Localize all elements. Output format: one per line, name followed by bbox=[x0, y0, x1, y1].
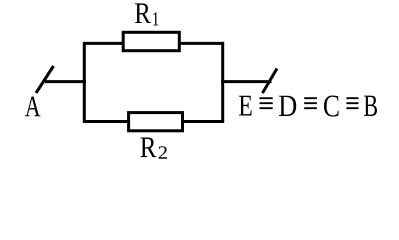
label R1 subscript 1 bbox=[153, 12, 158, 25]
identity sign between E and D bbox=[260, 98, 273, 108]
wire left terminal lead bbox=[45, 80, 86, 83]
resistor R1 bbox=[123, 32, 179, 50]
node label D bbox=[279, 96, 296, 116]
label R2 subscript 2 bbox=[159, 146, 167, 158]
node label C bbox=[324, 95, 339, 116]
wire right vertical of loop bbox=[221, 42, 224, 123]
wire top rail of parallel loop bbox=[83, 42, 224, 45]
terminal slash at A bbox=[36, 66, 54, 93]
identity sign between C and B bbox=[346, 98, 358, 108]
wire left vertical of loop bbox=[83, 42, 86, 123]
identity sign between D and C bbox=[304, 98, 317, 108]
node label B bbox=[364, 96, 377, 116]
wire bottom rail of parallel loop bbox=[83, 120, 224, 123]
label R2 letter R bbox=[140, 137, 156, 157]
node label A bbox=[25, 96, 40, 116]
wire right terminal lead bbox=[221, 80, 272, 83]
label R1 letter R bbox=[135, 3, 151, 23]
terminal slash at E bbox=[263, 69, 278, 94]
node label E bbox=[239, 96, 252, 116]
resistor R2 bbox=[129, 113, 183, 131]
